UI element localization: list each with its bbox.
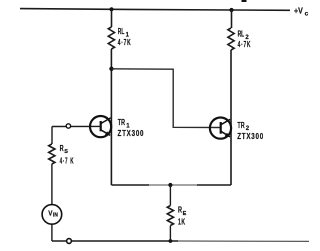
svg-text:4·7 K: 4·7 K: [60, 156, 75, 165]
resistor RL1: [108, 27, 114, 49]
transistor TR2: [210, 118, 231, 139]
resistor RE: [167, 206, 173, 226]
wire RE top lead: [169, 185, 171, 206]
svg-text:c: c: [305, 10, 309, 17]
svg-text:V: V: [48, 208, 52, 217]
wire top supply rail: [20, 9, 290, 11]
wire TR1 collector to TR2 base: [112, 69, 221, 128]
node junction RL1 / top rail: [109, 7, 113, 11]
wire RS to VIN: [51, 164, 53, 205]
wire TR1 base lead: [52, 125, 101, 127]
source VIN: [42, 205, 62, 225]
svg-text:S: S: [64, 149, 68, 155]
wire bottom rail: [52, 240, 178, 242]
resistor RL2: [228, 28, 234, 50]
node junction RL2 / top rail: [229, 8, 233, 12]
wire RL2 bottom lead / TR2 collector-emitter line: [230, 50, 232, 185]
wire RS top lead: [51, 127, 53, 145]
wire RE bottom lead: [169, 226, 171, 242]
svg-text:R: R: [178, 206, 182, 215]
wire VIN to bottom rail: [51, 224, 53, 241]
node junction TR1 collector: [109, 67, 113, 71]
stray ink mark top edge: [242, 0, 247, 2]
svg-text:1K: 1K: [178, 217, 186, 226]
svg-text:4·7K: 4·7K: [238, 40, 252, 49]
svg-text:TR: TR: [237, 121, 244, 130]
svg-text:E: E: [183, 211, 187, 217]
wire RL1 bottom lead / TR1 collector-emitter line: [110, 49, 112, 185]
svg-text:R: R: [60, 144, 64, 153]
terminal input (open circle): [66, 124, 70, 128]
svg-text:4·7K: 4·7K: [118, 38, 132, 47]
svg-text:TR: TR: [118, 118, 125, 127]
terminal input bottom (open circle): [67, 239, 72, 244]
transistor TR1: [90, 116, 111, 137]
wire RL1 top lead: [111, 9, 113, 27]
svg-text:ZTX300: ZTX300: [118, 129, 145, 138]
wire emitter rail: [111, 184, 149, 186]
svg-text:ZTX300: ZTX300: [237, 132, 264, 141]
resistor RS: [49, 144, 55, 164]
wire RL2 top lead: [231, 10, 233, 28]
node junction RE / bottom rail: [169, 239, 173, 243]
node junction RE / emitter rail: [168, 183, 172, 187]
svg-text:RL: RL: [238, 29, 245, 38]
svg-text:+V: +V: [294, 6, 303, 16]
svg-text:IN: IN: [53, 212, 58, 218]
svg-text:RL: RL: [118, 27, 125, 36]
